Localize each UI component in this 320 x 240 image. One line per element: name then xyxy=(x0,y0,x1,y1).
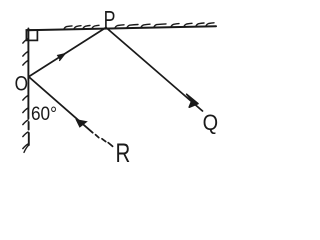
small flick below O-P arrowhead xyxy=(60,57,61,60)
wire left wall mirror line xyxy=(27,29,29,146)
wire ceiling mirror line xyxy=(27,26,217,30)
svg-text:O: O xyxy=(15,71,28,95)
svg-text:R: R xyxy=(116,138,131,168)
ceiling hatch marks xyxy=(64,23,214,29)
wall hatch marks xyxy=(23,39,29,153)
right angle marker xyxy=(26,30,37,40)
wire ray O to P xyxy=(29,28,106,77)
wire ray R to O (solid part) xyxy=(29,77,93,133)
dash of ray R xyxy=(96,135,99,138)
arrowhead on ray R-O xyxy=(75,119,88,128)
svg-text:60°: 60° xyxy=(31,104,57,125)
svg-text:Q: Q xyxy=(203,110,218,135)
svg-text:P: P xyxy=(104,6,116,33)
dash of ray R xyxy=(108,143,112,147)
arrowhead on ray P-Q xyxy=(187,94,198,107)
wire ray P to Q xyxy=(106,28,203,112)
arrowhead on ray O-P xyxy=(57,53,67,61)
dash of ray R xyxy=(102,139,106,142)
